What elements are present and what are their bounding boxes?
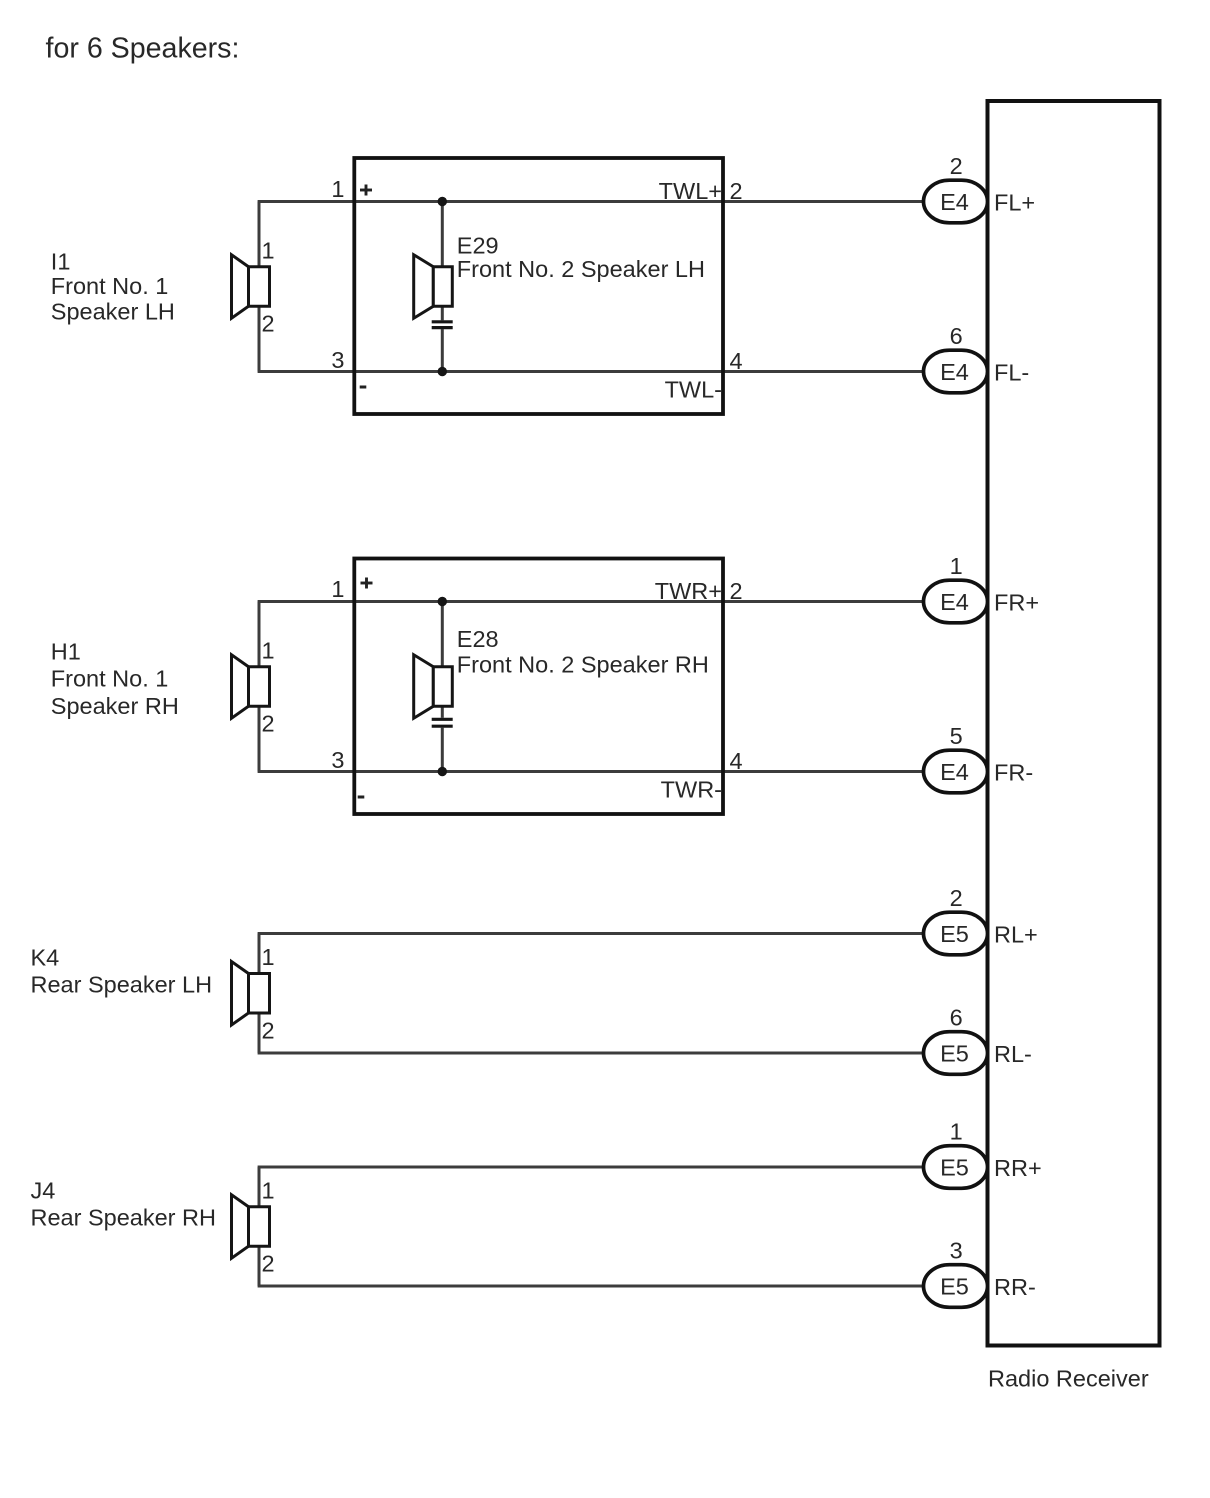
svg-text:Speaker LH: Speaker LH <box>51 298 175 324</box>
wire row3 speaker pin 1 vertical <box>258 934 261 976</box>
speaker H1 pin 2 number <box>262 711 275 737</box>
speaker H1 label <box>51 638 179 719</box>
svg-text:TWL-: TWL- <box>665 377 722 403</box>
svg-text:4: 4 <box>730 748 743 774</box>
svg-text:E5: E5 <box>940 1041 969 1067</box>
connector E29 label <box>457 233 705 283</box>
connector E5 oval (RR-) <box>924 1265 988 1308</box>
svg-text:1: 1 <box>331 176 344 202</box>
svg-text:1: 1 <box>950 553 963 579</box>
svg-text:1: 1 <box>262 1177 275 1203</box>
speaker K4 symbol <box>232 962 270 1026</box>
svg-text:Front No. 2 Speaker RH: Front No. 2 Speaker RH <box>457 652 709 678</box>
svg-text:1: 1 <box>950 1119 963 1145</box>
svg-text:RL-: RL- <box>994 1041 1032 1067</box>
svg-text:5: 5 <box>950 723 963 749</box>
svg-text:FR+: FR+ <box>994 590 1039 616</box>
svg-text:E4: E4 <box>940 359 969 385</box>
svg-text:K4: K4 <box>31 944 60 970</box>
svg-text:1: 1 <box>262 637 275 663</box>
minus polarity mark in E28 <box>358 796 365 799</box>
speaker J4 pin 1 number <box>262 1177 275 1203</box>
svg-text:2: 2 <box>950 885 963 911</box>
net label FL+ <box>994 190 1035 216</box>
speaker H1 symbol <box>232 655 270 719</box>
svg-text:E5: E5 <box>940 1274 969 1300</box>
wire row3 speaker pin 2 vertical <box>258 1011 261 1053</box>
E29 pin 4 <box>730 348 743 374</box>
net label TWL- <box>665 377 722 403</box>
net label RR- <box>994 1274 1036 1300</box>
capacitor in E29 <box>432 322 453 328</box>
tweeter speaker symbol inside E28 <box>414 655 453 719</box>
E29 pin 1 <box>331 176 344 202</box>
wire row4 speaker pin 2 vertical <box>258 1244 261 1286</box>
wire row2 speaker pin 1 vertical <box>258 602 261 669</box>
svg-text:J4: J4 <box>31 1177 56 1203</box>
connector E29 box <box>354 158 723 414</box>
net label FR- <box>994 760 1033 786</box>
svg-text:2: 2 <box>262 1017 275 1043</box>
svg-text:Front No. 1: Front No. 1 <box>51 273 169 299</box>
speaker J4 pin 2 number <box>262 1251 275 1277</box>
svg-text:2: 2 <box>730 178 743 204</box>
svg-text:RR+: RR+ <box>994 1155 1042 1181</box>
plus polarity mark in E29 <box>360 185 372 196</box>
junction dot bottom (E29) <box>438 367 447 376</box>
svg-text:3: 3 <box>331 747 344 773</box>
svg-text:FR-: FR- <box>994 760 1033 786</box>
net label FL- <box>994 360 1029 386</box>
junction dot bottom (E28) <box>438 767 447 776</box>
pin 5 number of E4 (FR-) <box>950 723 963 749</box>
svg-text:I1: I1 <box>51 249 71 275</box>
svg-text:Rear Speaker LH: Rear Speaker LH <box>31 972 213 998</box>
connector E28 box <box>354 559 723 815</box>
junction dot top (E28) <box>438 597 447 606</box>
pin 3 number of E5 (RR-) <box>950 1238 963 1264</box>
net label TWR- <box>661 777 722 803</box>
minus polarity mark in E29 <box>360 386 367 389</box>
net label FR+ <box>994 590 1039 616</box>
svg-text:RL+: RL+ <box>994 922 1038 948</box>
radio receiver box <box>988 101 1160 1346</box>
speaker I1 pin 2 number <box>262 311 275 337</box>
svg-text:Front No. 2 Speaker LH: Front No. 2 Speaker LH <box>457 256 705 282</box>
svg-text:E4: E4 <box>940 759 969 785</box>
wire row3 bottom horizontal <box>258 1052 926 1055</box>
svg-text:3: 3 <box>950 1238 963 1264</box>
svg-text:TWL+: TWL+ <box>659 178 722 204</box>
wire row2 top horizontal <box>258 600 926 603</box>
pin 2 number of E5 (RL+) <box>950 885 963 911</box>
svg-text:E5: E5 <box>940 921 969 947</box>
svg-text:TWR-: TWR- <box>661 777 722 803</box>
svg-text:E5: E5 <box>940 1155 969 1181</box>
svg-text:2: 2 <box>730 578 743 604</box>
speaker I1 pin 1 number <box>262 237 275 263</box>
E28 pin 2 <box>730 578 743 604</box>
wire row1 bottom horizontal <box>258 370 926 373</box>
svg-text:2: 2 <box>262 1251 275 1277</box>
wire row2 speaker pin 2 vertical <box>258 704 261 771</box>
connector E4 oval (FL-) <box>924 350 988 393</box>
svg-text:2: 2 <box>262 311 275 337</box>
svg-text:E28: E28 <box>457 626 499 652</box>
speaker I1 symbol <box>232 255 270 319</box>
svg-text:RR-: RR- <box>994 1274 1036 1300</box>
svg-text:6: 6 <box>950 1005 963 1031</box>
E28 pin 4 <box>730 748 743 774</box>
title <box>46 33 240 65</box>
connector E4 oval (FR+) <box>924 580 988 623</box>
svg-text:Speaker RH: Speaker RH <box>51 693 179 719</box>
wire row4 speaker pin 1 vertical <box>258 1167 261 1209</box>
svg-text:for 6 Speakers:: for 6 Speakers: <box>46 33 240 65</box>
connector E5 oval (RL-) <box>924 1032 988 1075</box>
pin 1 number of E4 (FR+) <box>950 553 963 579</box>
speaker K4 label <box>31 944 213 997</box>
connector E4 oval (FR-) <box>924 750 988 793</box>
plus polarity mark in E28 <box>361 578 373 589</box>
net label RR+ <box>994 1155 1042 1181</box>
E28 pin 1 <box>331 576 344 602</box>
speaker H1 pin 1 number <box>262 637 275 663</box>
E29 pin 3 <box>331 347 344 373</box>
svg-text:E4: E4 <box>940 589 969 615</box>
connector E5 oval (RL+) <box>924 912 988 955</box>
wire row1 speaker pin 1 vertical <box>258 202 261 269</box>
speaker K4 pin 1 number <box>262 944 275 970</box>
pin 2 number of E4 (FL+) <box>950 153 963 179</box>
svg-text:FL-: FL- <box>994 360 1029 386</box>
svg-text:2: 2 <box>262 711 275 737</box>
connector E5 oval (RR+) <box>924 1146 988 1189</box>
speaker K4 pin 2 number <box>262 1017 275 1043</box>
svg-text:3: 3 <box>331 347 344 373</box>
connector E4 oval (FL+) <box>924 180 988 223</box>
net label TWR+ <box>655 578 722 604</box>
tweeter branch wire (E28) <box>441 602 444 772</box>
speaker J4 label <box>31 1177 216 1230</box>
capacitor in E28 <box>432 719 453 726</box>
svg-text:Radio Receiver: Radio Receiver <box>988 1366 1149 1392</box>
connector E28 label <box>457 626 709 678</box>
wire row1 speaker pin 2 vertical <box>258 304 261 371</box>
net label TWL+ <box>659 178 722 204</box>
tweeter speaker symbol inside E29 <box>414 255 453 319</box>
svg-text:2: 2 <box>950 153 963 179</box>
net label RL- <box>994 1041 1032 1067</box>
E29 pin 2 <box>730 178 743 204</box>
wire row3 top horizontal <box>258 932 926 935</box>
pin 6 number of E4 (FL-) <box>950 323 963 349</box>
wire row4 top horizontal <box>258 1166 926 1169</box>
svg-text:TWR+: TWR+ <box>655 578 722 604</box>
svg-text:FL+: FL+ <box>994 190 1035 216</box>
radio receiver label <box>988 1366 1149 1392</box>
tweeter branch wire (E29) <box>441 202 444 372</box>
svg-text:E4: E4 <box>940 189 969 215</box>
svg-text:H1: H1 <box>51 638 81 664</box>
svg-text:1: 1 <box>262 944 275 970</box>
speaker J4 symbol <box>232 1195 270 1259</box>
svg-text:E29: E29 <box>457 233 499 259</box>
svg-text:1: 1 <box>262 237 275 263</box>
speaker I1 label <box>51 249 175 325</box>
wire row1 top horizontal <box>258 200 926 203</box>
svg-text:Rear Speaker RH: Rear Speaker RH <box>31 1205 216 1231</box>
svg-text:1: 1 <box>331 576 344 602</box>
net label RL+ <box>994 922 1038 948</box>
pin 1 number of E5 (RR+) <box>950 1119 963 1145</box>
wire row2 bottom horizontal <box>258 770 926 773</box>
svg-text:4: 4 <box>730 348 743 374</box>
pin 6 number of E5 (RL-) <box>950 1005 963 1031</box>
wire row4 bottom horizontal <box>258 1285 926 1288</box>
junction dot top (E29) <box>438 197 447 206</box>
svg-text:6: 6 <box>950 323 963 349</box>
E28 pin 3 <box>331 747 344 773</box>
svg-text:Front No. 1: Front No. 1 <box>51 666 169 692</box>
